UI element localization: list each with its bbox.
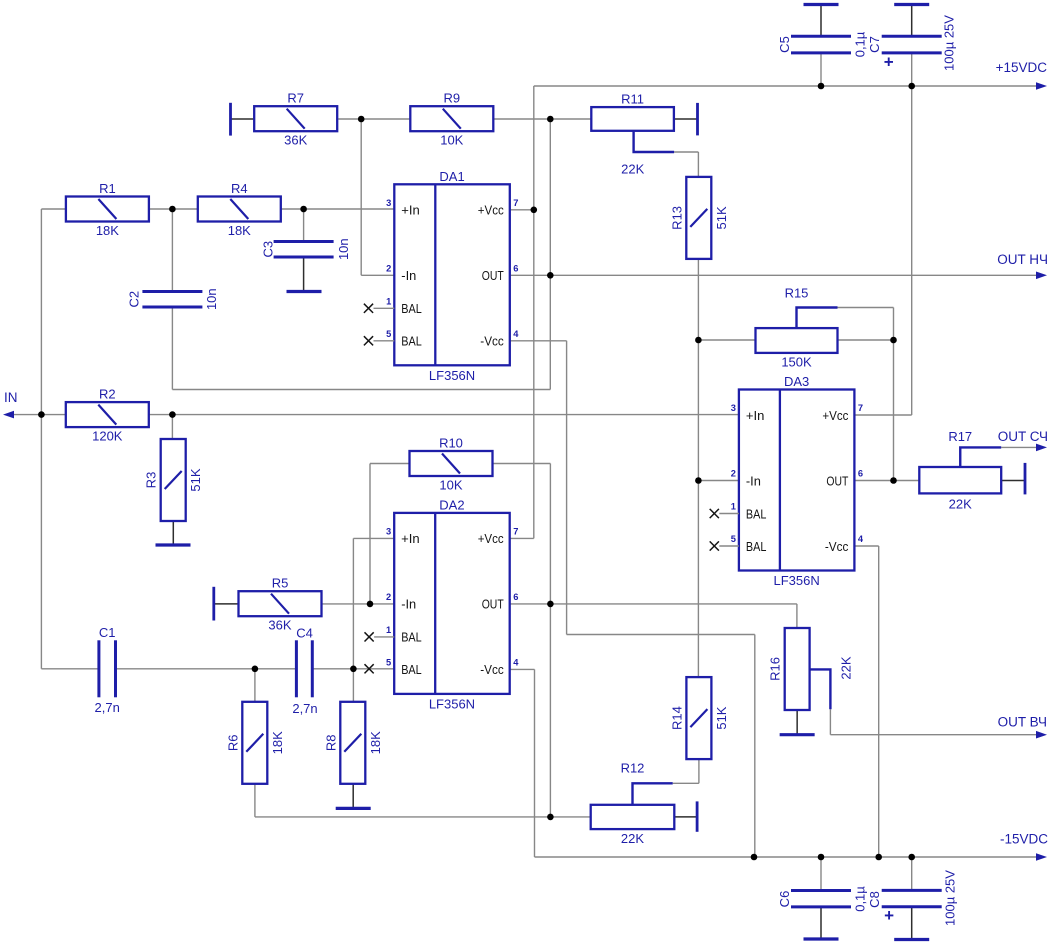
wire stub R12 right terminal <box>674 816 697 818</box>
junction <box>169 411 176 418</box>
svg-text:4: 4 <box>858 534 864 544</box>
svg-text:DA1: DA1 <box>439 169 464 184</box>
junction <box>818 83 825 90</box>
svg-text:10n: 10n <box>204 288 219 310</box>
wire stub R3 to ground <box>172 521 174 545</box>
svg-text:OUT НЧ: OUT НЧ <box>997 252 1048 267</box>
terminal bar at R12 right <box>696 801 699 831</box>
wire IN to R2 left <box>12 414 66 416</box>
ground below R16 <box>780 733 815 736</box>
svg-text:+Vcc: +Vcc <box>822 408 848 423</box>
wire DA1 +Vcc pin 7 <box>510 209 534 211</box>
svg-text:BAL: BAL <box>746 539 767 554</box>
wire DA1 OUT feedback up to R9/R11 node <box>549 119 551 390</box>
wire R16 wiper down <box>829 709 831 734</box>
svg-text:R9: R9 <box>443 91 460 106</box>
no-connect X DA1 pin 1 <box>364 304 394 313</box>
svg-text:DA3: DA3 <box>784 374 809 389</box>
svg-text:5: 5 <box>386 329 391 339</box>
terminal bar at R11 right <box>696 103 699 135</box>
potentiometer R16 22K <box>768 628 854 710</box>
svg-text:6: 6 <box>858 469 863 479</box>
op-amp DA2 LF356N <box>386 497 519 711</box>
wire DA3 -In pin 2 <box>698 480 739 482</box>
wire R6 bottom down <box>254 784 256 817</box>
svg-text:DA2: DA2 <box>439 497 464 512</box>
capacitor C3 10n <box>261 238 352 260</box>
svg-text:LF356N: LF356N <box>774 573 820 588</box>
svg-text:5: 5 <box>386 657 391 667</box>
ground below R3 <box>156 543 191 546</box>
port IN <box>3 390 18 418</box>
wire into DA2 +Vcc pin 7 <box>510 537 534 539</box>
junction <box>367 601 374 608</box>
junction <box>358 116 365 123</box>
wire node R1/R4 down to C2 top <box>171 209 173 291</box>
wire C4 node down to R6 top <box>254 669 256 702</box>
svg-text:7: 7 <box>513 526 518 536</box>
op-amp DA1 LF356N <box>386 169 519 383</box>
svg-text:+In: +In <box>401 531 420 546</box>
terminal bar at R5 left <box>212 587 215 621</box>
wire stub R7 left terminal <box>231 118 255 120</box>
resistor R7 36K <box>254 91 337 148</box>
svg-text:3: 3 <box>386 198 391 208</box>
wire -15VDC rail <box>535 856 1039 858</box>
svg-text:36K: 36K <box>268 618 291 633</box>
wire R1 right to R4 left <box>149 208 198 210</box>
svg-text:BAL: BAL <box>401 630 422 645</box>
wire R13 bottom to R14 top <box>697 259 699 677</box>
svg-text:BAL: BAL <box>401 334 422 349</box>
wire C1 right to C4 left <box>116 668 297 670</box>
capacitor C1 2,7n <box>95 625 120 715</box>
svg-text:BAL: BAL <box>746 506 767 521</box>
junction <box>908 83 915 90</box>
svg-text:R14: R14 <box>669 706 684 730</box>
svg-text:-Vcc: -Vcc <box>480 334 504 349</box>
svg-text:1: 1 <box>386 296 391 306</box>
svg-text:OUT: OUT <box>826 473 848 488</box>
wire stub C7 to ground <box>911 5 913 37</box>
svg-text:10K: 10K <box>440 133 463 148</box>
wire R14 bottom <box>698 759 700 783</box>
resistor R5 36K <box>239 576 322 633</box>
wire down to R13 top <box>697 152 699 177</box>
junction <box>547 272 554 279</box>
wire C1 left <box>41 668 99 670</box>
terminal bar at R7 left <box>229 103 232 136</box>
port OUT НЧ <box>997 252 1048 279</box>
wire R1 left <box>41 208 66 210</box>
port +15VDC <box>996 60 1048 90</box>
wire R7 right to R9 left <box>338 118 410 120</box>
terminal bar at R17 right <box>1024 463 1027 495</box>
svg-text:2,7n: 2,7n <box>95 700 120 715</box>
resistor R1 18K <box>66 181 149 238</box>
wire node R2 down to R3 top <box>171 415 173 439</box>
svg-text:+15VDC: +15VDC <box>996 60 1048 75</box>
svg-text:IN: IN <box>4 390 18 405</box>
no-connect X DA2 pin 5 <box>365 664 374 673</box>
wire left bus R1 to C1 <box>40 209 42 669</box>
junction <box>875 854 882 861</box>
junction <box>252 666 259 673</box>
svg-text:R3: R3 <box>144 472 159 489</box>
wire R9 right to R11 left <box>493 118 591 120</box>
ground below C3 <box>287 290 322 293</box>
wire R17 wiper to OUT SCH <box>1001 446 1038 448</box>
svg-text:3: 3 <box>731 403 736 413</box>
wire C4 right to DA2 BAL pin 5 <box>312 668 394 670</box>
svg-text:100µ 25V: 100µ 25V <box>942 15 957 71</box>
wire DA2 +In pin 3 <box>353 537 394 539</box>
wire DA3 OUT pin 6 to R17 <box>854 480 919 482</box>
svg-text:+Vcc: +Vcc <box>478 203 504 218</box>
wire C5 to +15V rail <box>820 53 822 86</box>
wire R15 right <box>838 339 894 341</box>
svg-text:6: 6 <box>513 592 518 602</box>
wire R12 wiper to R14 bottom <box>673 782 699 784</box>
wire DA2 +In down to C4/R8 node <box>352 538 354 701</box>
wire R2 right to DA3 +In pin 3 <box>149 414 739 416</box>
capacitor C7 100u 25V polarized <box>867 15 957 72</box>
svg-text:LF356N: LF356N <box>429 696 475 711</box>
wire DA3 +Vcc pin 7 <box>854 414 912 416</box>
svg-text:-In: -In <box>401 597 416 612</box>
svg-text:-In: -In <box>746 473 761 488</box>
svg-text:C5: C5 <box>777 36 792 53</box>
op-amp DA3 LF356N <box>731 374 864 588</box>
svg-text:4: 4 <box>513 657 519 667</box>
svg-text:36K: 36K <box>284 133 307 148</box>
junction <box>908 854 915 861</box>
wire R6 bottom to R12 left node <box>255 816 591 818</box>
wire down to R16 top <box>796 604 798 628</box>
svg-text:150K: 150K <box>781 355 812 370</box>
svg-text:R11: R11 <box>621 92 644 107</box>
resistor R13 51K <box>669 177 729 259</box>
svg-text:C8: C8 <box>867 891 882 908</box>
wire stub R8 to ground <box>352 784 354 809</box>
wire DA3 -Vcc pin 4 <box>854 545 879 547</box>
resistor R10 10K <box>410 436 493 493</box>
port OUT ВЧ <box>998 715 1047 739</box>
resistor R3 51K <box>144 439 204 521</box>
junction <box>531 207 538 214</box>
svg-text:6: 6 <box>513 263 518 273</box>
svg-text:C1: C1 <box>99 625 116 640</box>
ground below C6 <box>804 937 839 940</box>
resistor R9 10K <box>410 91 493 148</box>
svg-text:C6: C6 <box>777 891 792 908</box>
wire C2 bottom run to DA1 OUT node <box>172 389 550 391</box>
potentiometer R12 22K <box>591 761 675 847</box>
junction <box>300 206 307 213</box>
wire +15VDC rail <box>534 85 1038 87</box>
svg-text:1: 1 <box>731 502 736 512</box>
capacitor C5 0,1u <box>777 31 868 57</box>
svg-text:C4: C4 <box>296 626 313 641</box>
svg-text:R1: R1 <box>99 181 116 196</box>
junction <box>350 666 357 673</box>
wire R15 left <box>698 339 755 341</box>
svg-text:OUT СЧ: OUT СЧ <box>998 429 1048 444</box>
wire C2 bottom down <box>171 307 173 390</box>
svg-text:22K: 22K <box>621 831 644 846</box>
svg-text:C2: C2 <box>127 291 142 308</box>
junction <box>547 601 554 608</box>
svg-text:-Vcc: -Vcc <box>480 662 504 677</box>
svg-text:3: 3 <box>386 526 391 536</box>
svg-text:R12: R12 <box>621 761 645 776</box>
svg-text:R2: R2 <box>99 387 116 402</box>
svg-text:51K: 51K <box>188 468 203 491</box>
svg-text:C3: C3 <box>261 241 276 258</box>
wire R10 left down to DA2 -In node <box>369 464 371 604</box>
junction <box>890 337 897 344</box>
wire stub C8 to ground <box>911 907 913 940</box>
wire stub R11 right terminal <box>674 118 698 120</box>
resistor R4 18K <box>198 181 281 238</box>
wire DA1 -Vcc vertical <box>566 341 568 635</box>
svg-text:2,7n: 2,7n <box>292 701 317 716</box>
no-connect X DA2 pin 1 <box>365 632 395 641</box>
svg-text:R17: R17 <box>948 429 972 444</box>
wire DA3 -Vcc down to -15V rail <box>878 546 880 857</box>
svg-text:R15: R15 <box>785 286 809 301</box>
capacitor C2 10n <box>127 288 220 310</box>
wire DA1 -Vcc pin 4 <box>510 340 567 342</box>
svg-text:R5: R5 <box>272 576 289 591</box>
junction <box>169 206 176 213</box>
svg-text:2: 2 <box>386 592 391 602</box>
ground below R8 <box>336 807 371 810</box>
wire C6 to -15V rail <box>820 857 822 891</box>
junction <box>547 814 554 821</box>
no-connect X DA3 pin 1 <box>710 509 739 518</box>
wire DA1 -Vcc horizontal run <box>567 634 755 636</box>
svg-text:+: + <box>884 53 894 72</box>
svg-text:22K: 22K <box>621 162 644 177</box>
svg-text:R16: R16 <box>768 657 783 681</box>
potentiometer R15 150K <box>756 286 838 370</box>
svg-text:BAL: BAL <box>401 662 422 677</box>
svg-text:+Vcc: +Vcc <box>478 531 504 546</box>
wire DA2 -Vcc pin 4 <box>510 668 534 670</box>
svg-text:OUT ВЧ: OUT ВЧ <box>998 715 1047 730</box>
svg-text:1: 1 <box>386 625 391 635</box>
svg-text:18K: 18K <box>96 223 119 238</box>
svg-text:R4: R4 <box>231 181 248 196</box>
svg-text:120K: 120K <box>92 429 123 444</box>
svg-text:0,1µ: 0,1µ <box>853 31 868 57</box>
capacitor C8 100u 25V polarized <box>867 870 958 926</box>
svg-text:18K: 18K <box>368 731 383 754</box>
svg-text:51K: 51K <box>714 206 729 229</box>
wire R5 right to DA2 -In pin 2 <box>321 603 394 605</box>
svg-text:C7: C7 <box>867 36 882 53</box>
wire OUT VCH rail <box>830 734 1038 736</box>
junction <box>547 116 554 123</box>
svg-text:OUT: OUT <box>482 268 504 283</box>
port -15VDC <box>1000 832 1048 861</box>
svg-text:18K: 18K <box>270 731 285 754</box>
port OUT СЧ <box>998 429 1048 451</box>
wire R10 right down to DA2 OUT and R12 <box>549 464 551 817</box>
wire stub C6 to ground <box>820 907 822 939</box>
junction <box>695 477 702 484</box>
wire R15 node down to DA3 OUT <box>893 308 895 481</box>
potentiometer R17 22K <box>919 429 1001 512</box>
resistor R2 120K <box>66 387 149 444</box>
junction <box>38 411 45 418</box>
wire +15V down to DA3 +Vcc <box>911 86 913 415</box>
wire R10 left <box>370 463 410 465</box>
svg-text:22K: 22K <box>839 656 854 679</box>
wire C8 to -15V rail <box>911 857 913 890</box>
wire DA1 OUT pin 6 to OUT HCH rail <box>510 274 1038 276</box>
svg-text:OUT: OUT <box>482 597 504 612</box>
svg-text:10n: 10n <box>336 238 351 260</box>
svg-text:-Vcc: -Vcc <box>825 539 849 554</box>
wire stub R5 left terminal <box>214 603 239 605</box>
resistor R14 51K <box>669 677 729 759</box>
svg-text:BAL: BAL <box>401 301 422 316</box>
svg-text:+In: +In <box>746 408 765 423</box>
svg-text:18K: 18K <box>228 223 251 238</box>
wire node R7/R9 down to DA1 -In <box>360 119 362 275</box>
wire DA2 -Vcc down to -15V rail <box>534 669 536 857</box>
ground above C7 <box>894 3 929 6</box>
svg-text:4: 4 <box>513 329 519 339</box>
svg-text:51K: 51K <box>714 706 729 729</box>
svg-text:R7: R7 <box>287 91 304 106</box>
wire DA2 OUT pin 6 to R16 top run <box>510 603 797 605</box>
wire R11 wiper to R13 top <box>674 151 698 153</box>
ground below C8 <box>894 938 929 941</box>
svg-text:R6: R6 <box>225 734 240 751</box>
capacitor C6 0,1u <box>777 886 868 912</box>
wire stub R17 right terminal <box>1001 480 1025 482</box>
svg-text:22K: 22K <box>949 497 972 512</box>
svg-text:-15VDC: -15VDC <box>1000 832 1048 847</box>
wire +15V vertical to DA2 +Vcc <box>533 86 535 538</box>
no-connect X DA1 pin 5 <box>364 336 394 345</box>
junction <box>695 337 702 344</box>
capacitor C4 2,7n <box>292 626 317 716</box>
junction <box>890 477 897 484</box>
wire stub R16 to ground <box>796 710 798 735</box>
junction <box>818 854 825 861</box>
wire C7 to +15V rail <box>911 53 913 86</box>
wire stub C3 to ground <box>303 257 305 292</box>
svg-text:+: + <box>884 906 894 925</box>
wire R4 right to DA1 +In pin 3 <box>280 208 394 210</box>
svg-text:7: 7 <box>513 198 518 208</box>
svg-text:10K: 10K <box>439 478 462 493</box>
svg-text:-In: -In <box>401 268 416 283</box>
svg-text:2: 2 <box>731 469 736 479</box>
wire into DA1 -In pin 2 <box>361 274 394 276</box>
svg-text:7: 7 <box>858 403 863 413</box>
svg-text:R8: R8 <box>323 734 338 751</box>
wire DA1 -Vcc down to -15V rail <box>754 635 756 858</box>
junction <box>751 854 758 861</box>
svg-text:R10: R10 <box>439 436 463 451</box>
svg-text:R13: R13 <box>669 206 684 230</box>
no-connect X DA3 pin 5 <box>710 541 739 550</box>
wire R15 wiper run <box>838 307 894 309</box>
svg-text:5: 5 <box>731 534 736 544</box>
svg-text:LF356N: LF356N <box>429 368 475 383</box>
svg-text:100µ 25V: 100µ 25V <box>943 870 958 926</box>
wire R10 right <box>493 463 550 465</box>
svg-text:+In: +In <box>401 203 420 218</box>
svg-text:2: 2 <box>386 263 391 273</box>
resistor R6 18K <box>225 702 284 784</box>
svg-text:0,1µ: 0,1µ <box>853 886 868 912</box>
resistor R8 18K <box>323 702 383 784</box>
wire node R4/C3 down to C3 top <box>303 209 305 241</box>
potentiometer R11 22K <box>591 92 674 177</box>
wire stub C5 to ground <box>820 5 822 37</box>
ground above C5 <box>804 3 839 6</box>
